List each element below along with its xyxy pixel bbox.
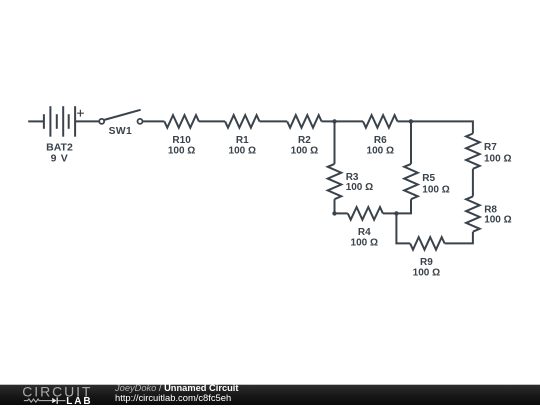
svg-text:LAB: LAB [66, 396, 92, 405]
svg-text:100 Ω: 100 Ω [484, 153, 511, 164]
svg-text:100 Ω: 100 Ω [351, 238, 378, 249]
svg-text:100 Ω: 100 Ω [422, 184, 449, 195]
svg-text:9 V: 9 V [51, 152, 69, 164]
svg-text:R5: R5 [422, 173, 435, 184]
svg-text:100 Ω: 100 Ω [367, 146, 394, 157]
svg-text:http://circuitlab.com/c8fc5eh: http://circuitlab.com/c8fc5eh [115, 392, 231, 403]
svg-text:SW1: SW1 [109, 126, 133, 137]
svg-text:100 Ω: 100 Ω [346, 182, 373, 193]
svg-text:100 Ω: 100 Ω [413, 268, 440, 279]
svg-text:100 Ω: 100 Ω [168, 146, 195, 157]
svg-text:100 Ω: 100 Ω [291, 146, 318, 157]
svg-text:100 Ω: 100 Ω [229, 146, 256, 157]
svg-text:R7: R7 [484, 142, 497, 153]
svg-text:100 Ω: 100 Ω [484, 215, 511, 226]
